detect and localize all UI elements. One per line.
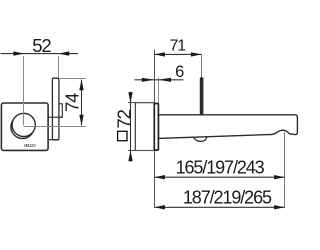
svg-text:74: 74 (62, 93, 82, 112)
svg-text:6: 6 (175, 63, 184, 81)
svg-text:71: 71 (169, 38, 186, 55)
svg-text:52: 52 (32, 35, 51, 56)
svg-text:165/197/243: 165/197/243 (176, 158, 265, 178)
svg-text:72: 72 (114, 109, 135, 128)
svg-text:187/219/265: 187/219/265 (183, 188, 272, 208)
svg-text:KEUCO: KEUCO (24, 143, 36, 148)
